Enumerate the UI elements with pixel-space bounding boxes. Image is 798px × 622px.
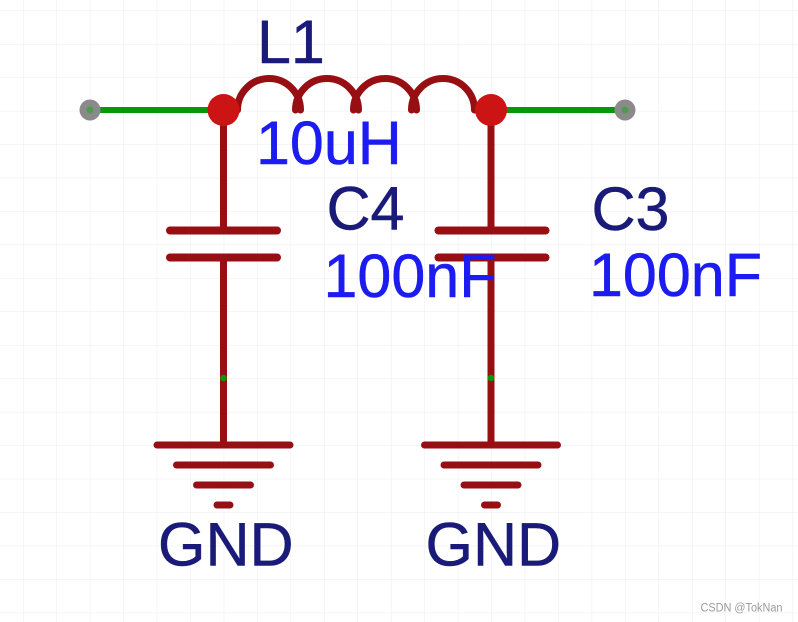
value 10uH [256,109,402,177]
svg-text:C3: C3 [592,175,670,243]
ground [157,445,290,505]
svg-text:10uH: 10uH [256,109,402,177]
capacitor C3 [439,231,546,258]
wire [488,110,495,230]
label GND [158,511,294,579]
watermark [701,603,783,615]
wire [220,110,227,230]
capacitor C4 [170,231,277,258]
svg-text:100nF: 100nF [324,242,497,310]
inductor L1 [238,79,475,110]
label L1 [257,8,325,76]
svg-text:CSDN @TokNan: CSDN @TokNan [701,603,783,615]
wire [491,107,625,113]
junction [475,94,507,126]
value 100nF [324,242,497,310]
label C4 [327,175,405,243]
wire [220,257,227,445]
ground [425,445,558,505]
svg-text:L1: L1 [257,8,325,76]
node A [220,375,227,382]
port P2 [615,100,636,121]
junction [208,94,240,126]
svg-text:100nF: 100nF [589,241,762,309]
svg-text:GND: GND [426,511,562,579]
svg-text:C4: C4 [327,175,405,243]
value 100nF [589,241,762,309]
node B [488,375,495,382]
port P1 [80,100,101,121]
label C3 [592,175,670,243]
wire [488,257,495,445]
svg-text:GND: GND [158,511,294,579]
label GND [426,511,562,579]
wire [90,107,223,113]
